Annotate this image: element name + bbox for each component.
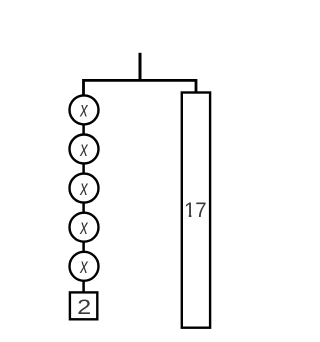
svg-text:x: x	[79, 175, 88, 199]
svg-text:2: 2	[77, 295, 91, 319]
svg-text:x: x	[79, 253, 88, 277]
wire: chain connectors through circles down to square	[82, 110, 85, 293]
svg-text:x: x	[79, 214, 88, 238]
svg-text:17: 17	[184, 198, 207, 222]
weight W1 circle (x)	[70, 95, 99, 124]
weight W7 tall rectangle (17)	[182, 93, 210, 328]
weight W3 circle (x)	[70, 174, 99, 203]
weight W2 circle (x)	[70, 135, 99, 164]
hanger crossbar with end drops	[84, 80, 197, 95]
svg-text:x: x	[79, 97, 88, 121]
white patch removing serif foot of digit 1 (left)	[184, 214, 189, 217]
weight W6 square (2)	[70, 292, 97, 319]
hanger stem	[139, 53, 142, 81]
weight W4 circle (x)	[70, 213, 99, 242]
weight W5 circle (x)	[70, 252, 99, 281]
svg-text:x: x	[79, 136, 88, 160]
white patch removing serif foot of digit 1 (right)	[191, 214, 195, 217]
